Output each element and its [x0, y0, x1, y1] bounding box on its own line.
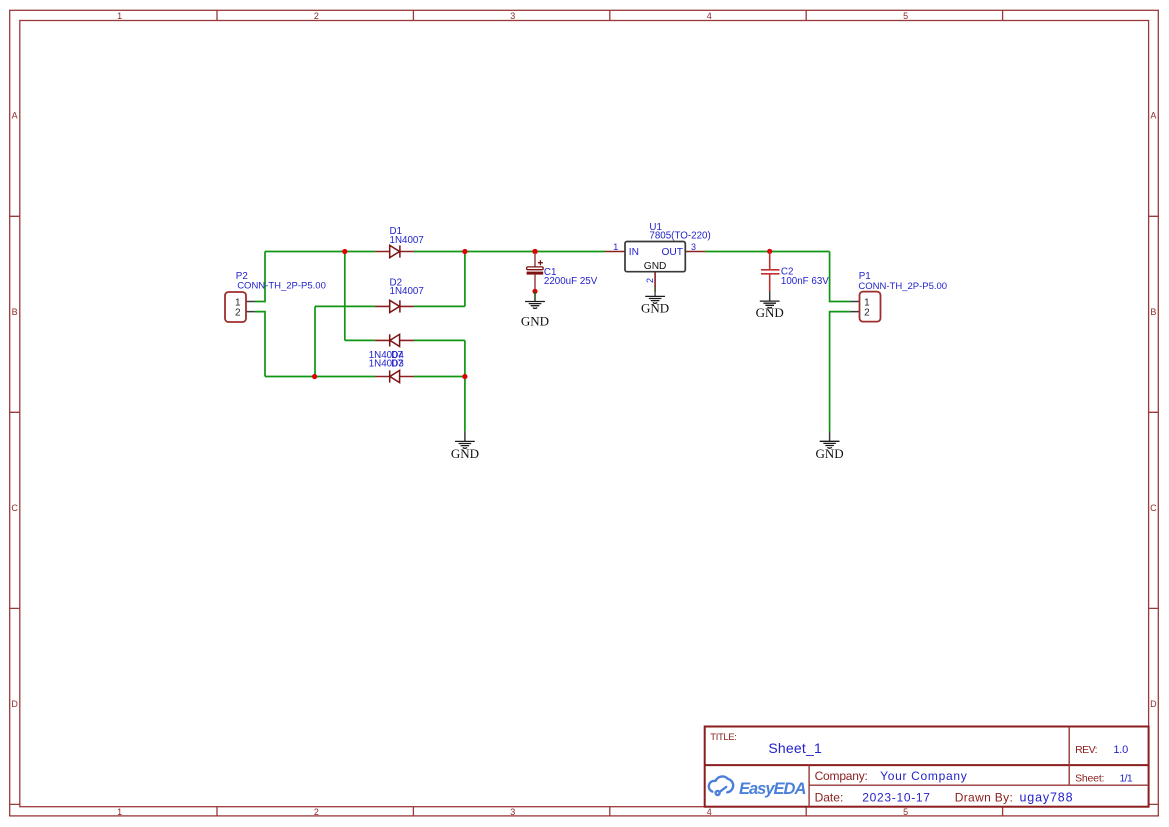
- wire D3 right side: [414, 339, 465, 341]
- wire P2 pin2 down: [255, 312, 265, 377]
- svg-text:1: 1: [117, 807, 122, 817]
- svg-text:GND: GND: [521, 314, 549, 329]
- svg-text:A: A: [12, 111, 18, 121]
- svg-text:2: 2: [235, 307, 241, 318]
- svg-text:4: 4: [707, 807, 712, 817]
- svg-text:3: 3: [510, 807, 515, 817]
- wire bottom rail to D4: [265, 376, 375, 378]
- svg-text:D3: D3: [391, 359, 404, 370]
- ruler column numbers top: [117, 11, 908, 21]
- svg-text:2: 2: [864, 308, 870, 319]
- svg-text:2: 2: [314, 11, 319, 21]
- diode D1: [375, 245, 414, 257]
- wire vertical x344.8 row3 branch: [344, 252, 346, 341]
- svg-text:1: 1: [613, 242, 618, 252]
- ground under P1: [816, 432, 844, 462]
- svg-text:7805(TO-220): 7805(TO-220): [649, 231, 710, 242]
- svg-text:5: 5: [903, 807, 908, 817]
- wire D1 cathode to U1 pin1: [414, 251, 605, 253]
- svg-text:4: 4: [707, 11, 712, 21]
- wire D2 right side: [414, 305, 465, 307]
- ground under U1: [641, 287, 669, 316]
- svg-text:3: 3: [691, 242, 696, 252]
- svg-text:Your Company: Your Company: [880, 769, 967, 783]
- svg-text:CONN-TH_2P-P5.00: CONN-TH_2P-P5.00: [237, 281, 326, 292]
- svg-text:Sheet:: Sheet:: [1075, 773, 1104, 785]
- svg-text:D: D: [1150, 699, 1157, 709]
- svg-text:1.0: 1.0: [1113, 744, 1128, 756]
- wire U1 pin3 to C2 and corner: [705, 251, 829, 253]
- svg-text:REV:: REV:: [1075, 744, 1097, 756]
- wire row2 to D2: [315, 305, 375, 307]
- svg-text:100nF 63V: 100nF 63V: [781, 276, 829, 287]
- svg-text:A: A: [1150, 111, 1156, 121]
- ruler row letters right: [1150, 111, 1157, 709]
- ruler column numbers bottom: [117, 807, 908, 817]
- connector P1: [850, 292, 881, 322]
- wire vertical x464.9 D1 to D2: [464, 252, 466, 307]
- svg-text:TITLE:: TITLE:: [710, 732, 736, 743]
- svg-text:GND: GND: [644, 261, 667, 272]
- svg-text:ugay788: ugay788: [1020, 791, 1074, 805]
- svg-text:3: 3: [510, 11, 515, 21]
- svg-text:2200uF 25V: 2200uF 25V: [544, 276, 598, 287]
- connector P2: [225, 292, 255, 322]
- svg-text:C: C: [1150, 503, 1157, 513]
- EasyEDA logo: [709, 776, 733, 795]
- svg-text:GND: GND: [756, 305, 784, 320]
- ground under C2: [756, 291, 784, 320]
- wire P2 pin1 up: [255, 252, 265, 302]
- svg-text:2023-10-17: 2023-10-17: [862, 791, 930, 805]
- diode D4: [375, 370, 414, 382]
- node junction C2 top: [767, 249, 772, 254]
- svg-text:5: 5: [903, 11, 908, 21]
- wire row3 to D3: [345, 339, 375, 341]
- svg-text:OUT: OUT: [661, 247, 683, 258]
- svg-text:GND: GND: [451, 446, 479, 461]
- svg-text:2: 2: [645, 278, 655, 283]
- diode D3: [375, 334, 414, 346]
- svg-text:IN: IN: [629, 247, 639, 258]
- ground under diode bridge: [451, 431, 479, 461]
- ruler row letters left: [11, 111, 18, 709]
- node junction row1 x464.9: [462, 249, 467, 254]
- wire vertical x315 row2 branch: [314, 306, 316, 376]
- svg-text:CONN-TH_2P-P5.00: CONN-TH_2P-P5.00: [858, 281, 947, 292]
- wire AC1 top rail to D1: [265, 251, 375, 253]
- svg-text:EasyEDA: EasyEDA: [739, 780, 805, 798]
- node junction row1 x344.8: [342, 249, 347, 254]
- svg-text:GND: GND: [641, 301, 669, 316]
- svg-text:Sheet_1: Sheet_1: [768, 740, 822, 756]
- svg-text:B: B: [1150, 307, 1156, 317]
- wire D4 junction down to GND: [464, 377, 466, 432]
- svg-text:1: 1: [117, 11, 122, 21]
- wire vertical x464.9 D3 to D4: [464, 340, 466, 376]
- svg-text:B: B: [12, 307, 18, 317]
- svg-text:Date:: Date:: [815, 791, 844, 805]
- title block border: [705, 727, 1149, 807]
- node junction row4 x314.6: [312, 374, 317, 379]
- node junction row4 x464.9: [462, 374, 467, 379]
- svg-text:Company:: Company:: [815, 769, 868, 783]
- ground under C1: [521, 291, 549, 328]
- diode D2: [375, 300, 414, 312]
- svg-text:2: 2: [314, 807, 319, 817]
- wire corner down to P1 pin1: [830, 252, 850, 302]
- svg-text:1N4007: 1N4007: [390, 286, 424, 297]
- svg-text:C: C: [11, 503, 18, 513]
- node junction C1 top: [532, 249, 537, 254]
- capacitor C1: [527, 249, 544, 294]
- capacitor C2: [761, 252, 780, 292]
- wire D4 right to junction: [414, 376, 465, 378]
- svg-text:1N4007: 1N4007: [390, 235, 424, 246]
- svg-text:D: D: [11, 699, 18, 709]
- svg-text:Drawn By:: Drawn By:: [955, 791, 1014, 805]
- wire P1 pin2 left and down to GND: [830, 312, 850, 432]
- svg-text:GND: GND: [816, 446, 844, 461]
- svg-text:1/1: 1/1: [1120, 773, 1133, 785]
- op-amp U1 regulator 7805: [605, 242, 705, 287]
